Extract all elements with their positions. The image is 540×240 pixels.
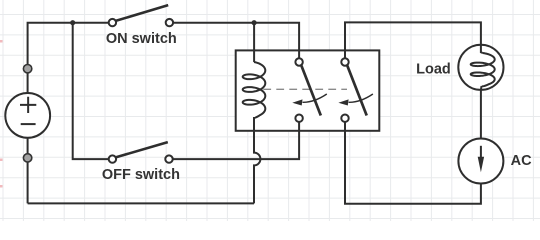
switch S1 ON: right terminal bbox=[166, 19, 173, 26]
wire: DC source minus terminal down to bottom rail bbox=[27, 138, 29, 203]
load L1: inner coil bbox=[471, 53, 495, 86]
source AC: arrow head bbox=[478, 157, 484, 172]
relay K1: contact1 actuation arrow bbox=[303, 94, 327, 102]
node: junction A (x254) bbox=[252, 20, 257, 25]
relay K1: contact1 bottom terminal bbox=[295, 115, 302, 122]
relay K1: contact2 actuation arrow bbox=[349, 94, 373, 102]
switch S2 OFF: lever bbox=[116, 142, 168, 157]
relay K1: box bbox=[236, 50, 380, 130]
source V1 DC: bottom terminal dot bbox=[23, 154, 31, 162]
relay K1: contact2 bottom terminal bbox=[341, 115, 348, 122]
source V1 DC: body bbox=[5, 93, 50, 138]
relay K1: contact2 top terminal bbox=[341, 58, 348, 65]
wire: relay contact2 top to load top bbox=[345, 22, 481, 58]
wire: junction A down to relay coil top bbox=[253, 23, 255, 62]
wire: junction B down to OFF switch left bbox=[73, 23, 109, 159]
wire: relay coil bottom with hop over OFF wire, to bottom rail bbox=[254, 117, 260, 203]
svg-text:OFF switch: OFF switch bbox=[102, 167, 180, 183]
wire: OFF switch right to relay contact1 bottom bbox=[173, 122, 300, 159]
switch S1 ON: left terminal bbox=[109, 19, 116, 26]
relay K1: contact2 lever bbox=[347, 64, 367, 115]
wire: bottom-left rail bbox=[28, 202, 254, 204]
relay K1: dashed actuation line bbox=[263, 88, 347, 90]
source V1 DC: minus sign bbox=[21, 123, 36, 125]
relay K1: contact1 stubs inside box bbox=[298, 50, 300, 130]
node: junction B (x72.7) bbox=[70, 20, 75, 25]
relay K1: contact1 top terminal bbox=[295, 58, 302, 65]
relay K1: coil top stub bbox=[253, 50, 255, 62]
source V1 DC: top terminal dot bbox=[23, 65, 31, 73]
switch S1 ON: lever bbox=[116, 5, 169, 21]
wire: load bottom to AC top bbox=[480, 90, 482, 139]
wire: ON switch right to corner, down to relay contact1 top bbox=[173, 23, 299, 59]
source V1 DC: plus sign bbox=[20, 97, 36, 113]
relay K1: contact2 stubs inside box bbox=[344, 50, 346, 130]
wire: DC source plus terminal up to top rail, right to ON switch bbox=[28, 23, 109, 93]
switch S2 OFF: left terminal bbox=[109, 155, 116, 162]
load L1: inner coil bottom stub bbox=[480, 86, 483, 90]
wire: relay contact2 bottom to bottom-right rail to AC bottom bbox=[345, 122, 481, 204]
relay K1: coil bbox=[243, 62, 266, 118]
relay K1: contact1 lever bbox=[301, 64, 321, 115]
load L1: body bbox=[458, 45, 503, 90]
svg-text:ON switch: ON switch bbox=[106, 31, 177, 47]
svg-text:Load: Load bbox=[416, 62, 451, 78]
source AC: body bbox=[458, 139, 503, 184]
svg-text:AC: AC bbox=[511, 153, 532, 169]
source AC: arrow shaft bbox=[480, 146, 482, 159]
relay K1: coil bottom stub bbox=[253, 117, 255, 131]
load L1: inner coil top stub bbox=[481, 45, 483, 53]
switch S2 OFF: right terminal bbox=[165, 155, 172, 162]
